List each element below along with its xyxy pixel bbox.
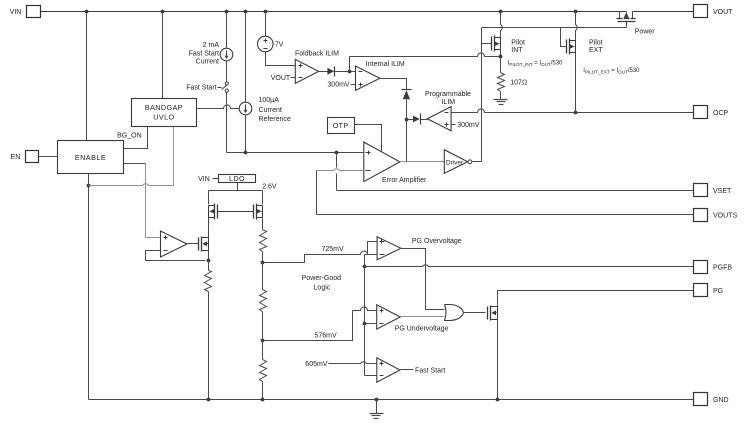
- svg-text:INT: INT: [511, 47, 523, 54]
- svg-text:VOUT: VOUT: [271, 75, 291, 82]
- svg-text:IPILOT_INT = IOUT/530: IPILOT_INT = IOUT/530: [508, 61, 563, 67]
- svg-text:EN: EN: [11, 154, 21, 161]
- svg-text:UVLO: UVLO: [153, 113, 174, 122]
- svg-text:Logic: Logic: [314, 285, 331, 292]
- svg-text:ENABLE: ENABLE: [75, 153, 106, 162]
- svg-text:Current: Current: [259, 107, 282, 114]
- svg-text:Internal ILIM: Internal ILIM: [366, 61, 405, 68]
- svg-text:Reference: Reference: [259, 116, 291, 123]
- svg-text:Fast Start: Fast Start: [186, 85, 216, 92]
- svg-text:725mV: 725mV: [322, 246, 345, 253]
- svg-text:2.6V: 2.6V: [262, 183, 277, 190]
- svg-text:BANDGAP: BANDGAP: [145, 103, 183, 112]
- svg-text:Driver: Driver: [446, 159, 464, 166]
- svg-text:VSET: VSET: [713, 188, 732, 195]
- svg-text:107Ω: 107Ω: [510, 79, 527, 86]
- svg-text:VIN: VIN: [10, 9, 22, 16]
- svg-text:2 mA: 2 mA: [203, 42, 220, 49]
- svg-text:GND: GND: [713, 397, 729, 404]
- svg-text:LDO: LDO: [229, 174, 245, 183]
- svg-text:Power-Good: Power-Good: [302, 275, 341, 282]
- svg-text:576mV: 576mV: [315, 333, 338, 340]
- svg-text:Foldback ILIM: Foldback ILIM: [295, 50, 339, 57]
- svg-text:Pilot: Pilot: [511, 39, 525, 46]
- svg-text:OTP: OTP: [333, 121, 349, 130]
- svg-text:EXT: EXT: [589, 47, 603, 54]
- svg-text:Error Amplifier: Error Amplifier: [382, 177, 427, 184]
- svg-text:Power: Power: [635, 28, 656, 35]
- svg-text:ILIM: ILIM: [441, 99, 455, 106]
- svg-text:Fast Start: Fast Start: [415, 367, 445, 374]
- svg-text:300mV: 300mV: [457, 122, 480, 129]
- svg-text:300mV: 300mV: [327, 81, 350, 88]
- svg-text:Pilot: Pilot: [589, 39, 603, 46]
- svg-text:VOUTS: VOUTS: [713, 212, 737, 219]
- svg-text:IPILOT_EXT = IOUT/530: IPILOT_EXT = IOUT/530: [583, 68, 640, 74]
- svg-text:Current: Current: [196, 59, 219, 66]
- svg-text:Fast Start: Fast Start: [189, 50, 219, 57]
- svg-text:PG: PG: [713, 288, 723, 295]
- svg-text:PG Undervoltage: PG Undervoltage: [395, 325, 449, 332]
- svg-text:PGFB: PGFB: [713, 264, 732, 271]
- svg-text:BG_ON: BG_ON: [117, 132, 142, 139]
- svg-text:VOUT: VOUT: [713, 9, 733, 16]
- svg-text:605mV: 605mV: [305, 361, 328, 368]
- svg-text:Programmable: Programmable: [425, 91, 471, 98]
- svg-text:100µA: 100µA: [259, 97, 280, 104]
- svg-text:PG Overvoltage: PG Overvoltage: [412, 238, 462, 245]
- svg-text:OCP: OCP: [713, 110, 729, 117]
- svg-text:7V: 7V: [275, 42, 284, 49]
- svg-text:VIN: VIN: [198, 176, 210, 183]
